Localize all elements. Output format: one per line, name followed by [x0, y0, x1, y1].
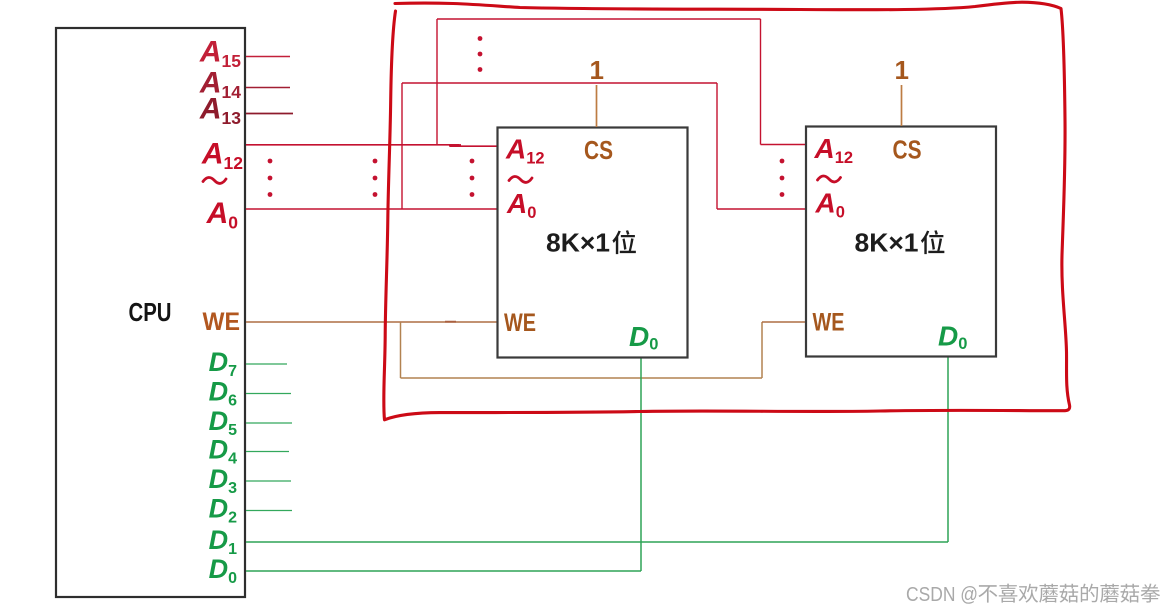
wire D0: CPU to chip1 D0 — [246, 358, 641, 572]
svg-text:CS: CS — [584, 135, 613, 165]
chip2 label 8K x 1 bit — [855, 230, 945, 258]
watermark CSDN — [906, 584, 1160, 606]
bus ellipsis dots left of chip1 — [470, 159, 475, 197]
svg-text:CSDN @: CSDN @ — [906, 584, 978, 606]
wire A0 bus: CPU to chip1 — [246, 208, 497, 210]
wire D1: CPU to chip2 D0 — [246, 357, 948, 542]
bus ellipsis dots mid-span — [373, 159, 378, 197]
wire D2 stub — [246, 510, 292, 512]
wire A13 stub — [246, 113, 293, 115]
wire A12 branch to chip2 (up and over the top) — [437, 19, 806, 145]
svg-text:WE: WE — [203, 308, 241, 336]
CPU box — [56, 28, 245, 597]
chip2 tilde — [818, 176, 841, 182]
wire A12 bus: CPU to chip1 — [246, 145, 497, 146]
chip1 label 8K x 1 bit — [546, 230, 636, 258]
svg-text:CPU: CPU — [129, 297, 172, 327]
svg-text:8K×1: 8K×1 — [546, 230, 610, 258]
svg-text:1: 1 — [895, 55, 909, 85]
bus ellipsis dots right of CPU — [268, 159, 273, 197]
svg-text:D6: D6 — [209, 377, 238, 410]
svg-text:D4: D4 — [209, 435, 238, 468]
svg-text:A0: A0 — [206, 197, 239, 233]
chip1 tilde — [509, 176, 532, 182]
wire WE branch to chip2 (down and under) — [401, 322, 807, 378]
wire D5 stub — [246, 422, 292, 424]
svg-text:D7: D7 — [209, 347, 238, 380]
ellipsis tilde between A12 and A0 (CPU) — [203, 177, 226, 183]
wire A14 stub — [246, 87, 290, 89]
svg-text:8K×1: 8K×1 — [855, 230, 919, 258]
wire WE: CPU to chip1 — [246, 321, 497, 323]
svg-text:WE: WE — [504, 309, 536, 337]
wire WE overlap tick — [445, 321, 456, 323]
chip2 CS select constant 1 — [895, 55, 909, 126]
bus ellipsis dots top branch — [478, 36, 483, 72]
wire D6 stub — [246, 393, 291, 395]
svg-text:A12: A12 — [201, 138, 243, 174]
memory chip 2 box (8K x 1 bit) — [806, 127, 996, 357]
bus ellipsis dots left of chip2 — [780, 159, 785, 197]
svg-text:WE: WE — [813, 309, 845, 337]
hand-drawn red highlight border around the two chips — [384, 2, 1070, 420]
wire A15 stub — [246, 56, 290, 58]
svg-text:CS: CS — [893, 135, 922, 165]
svg-text:D0: D0 — [209, 554, 238, 587]
wire D3 stub — [246, 480, 291, 482]
svg-text:1: 1 — [590, 55, 604, 85]
wire A0 branch to chip2 — [402, 83, 806, 209]
wire D4 stub — [246, 451, 289, 453]
chip1 CS select constant 1 — [590, 55, 604, 127]
svg-text:D3: D3 — [209, 464, 238, 497]
memory chip 1 box (8K x 1 bit) — [498, 128, 688, 358]
svg-text:D2: D2 — [209, 494, 238, 527]
wire D7 stub — [246, 363, 287, 365]
